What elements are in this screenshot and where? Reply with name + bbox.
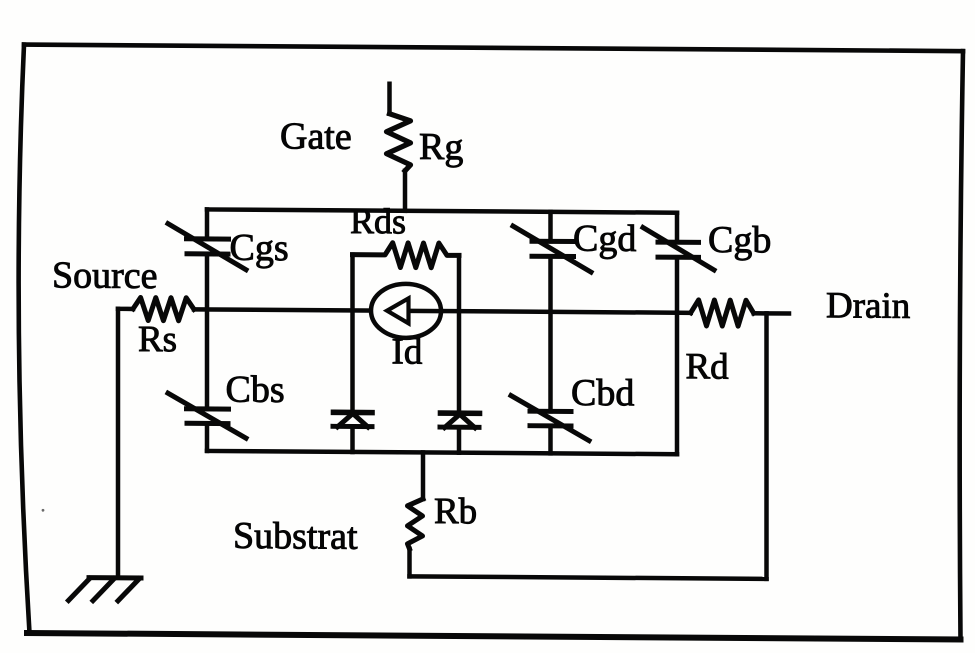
svg-text:Gate: Gate	[280, 115, 352, 158]
svg-text:Cbs: Cbs	[226, 369, 285, 411]
svg-text:Rs: Rs	[138, 319, 177, 360]
svg-text:Id: Id	[392, 331, 423, 372]
svg-text:Drain: Drain	[826, 285, 910, 327]
resistor Rd	[691, 300, 754, 326]
wire gate-drain branch	[548, 212, 553, 454]
wire source terminal down to ground	[116, 309, 121, 577]
resistor Rs	[133, 297, 194, 320]
wire Rg to gate bus	[403, 171, 408, 211]
wire gate terminal to Rg	[387, 84, 392, 114]
wire Rb to bottom bus	[407, 549, 412, 577]
capacitor Cgb	[643, 227, 714, 269]
wire box right edge (drain branch)	[675, 213, 680, 455]
current source Id	[371, 284, 441, 338]
wire drain terminal down to bottom bus	[764, 313, 769, 579]
ground	[69, 577, 142, 601]
capacitor Cbd	[511, 396, 589, 441]
main channel wire (source-drain line)	[118, 307, 133, 312]
svg-text:Cbd: Cbd	[571, 372, 634, 414]
svg-text:Cgb: Cgb	[708, 219, 771, 261]
svg-text:Cgs: Cgs	[230, 227, 289, 269]
svg-text:Rds: Rds	[350, 201, 406, 241]
capacitor Cgs	[168, 224, 246, 270]
diode D2 (bulk-drain)	[441, 410, 480, 416]
svg-text:Cgd: Cgd	[573, 218, 636, 260]
wire bulk bus to Rb	[421, 452, 426, 499]
capacitor Cgd	[513, 226, 591, 272]
diode D1 (bulk-source)	[334, 410, 373, 416]
wire bottom bus (substrate to drain)	[410, 576, 767, 578]
svg-text:Rg: Rg	[419, 126, 463, 168]
wire box bottom edge (bulk bus)	[207, 451, 677, 454]
wire Rs to drain resistor (through box)	[194, 309, 691, 312]
svg-text:Substrat: Substrat	[233, 515, 358, 558]
wire Rd to drain terminal	[754, 311, 789, 316]
capacitor Cbs	[168, 393, 246, 438]
resistor Rb	[408, 499, 424, 549]
resistor Rds (top of inner loop)	[353, 242, 460, 267]
wire inner branch right edge	[457, 255, 462, 452]
wire box left edge (source branch)	[205, 209, 210, 451]
svg-text:Rb: Rb	[434, 491, 477, 532]
svg-text:Rd: Rd	[686, 346, 730, 387]
resistor Rg	[387, 114, 411, 171]
svg-text:Source: Source	[52, 254, 158, 297]
wire inner branch left edge	[350, 255, 355, 452]
wire gate bus (box top edge)	[207, 209, 677, 212]
